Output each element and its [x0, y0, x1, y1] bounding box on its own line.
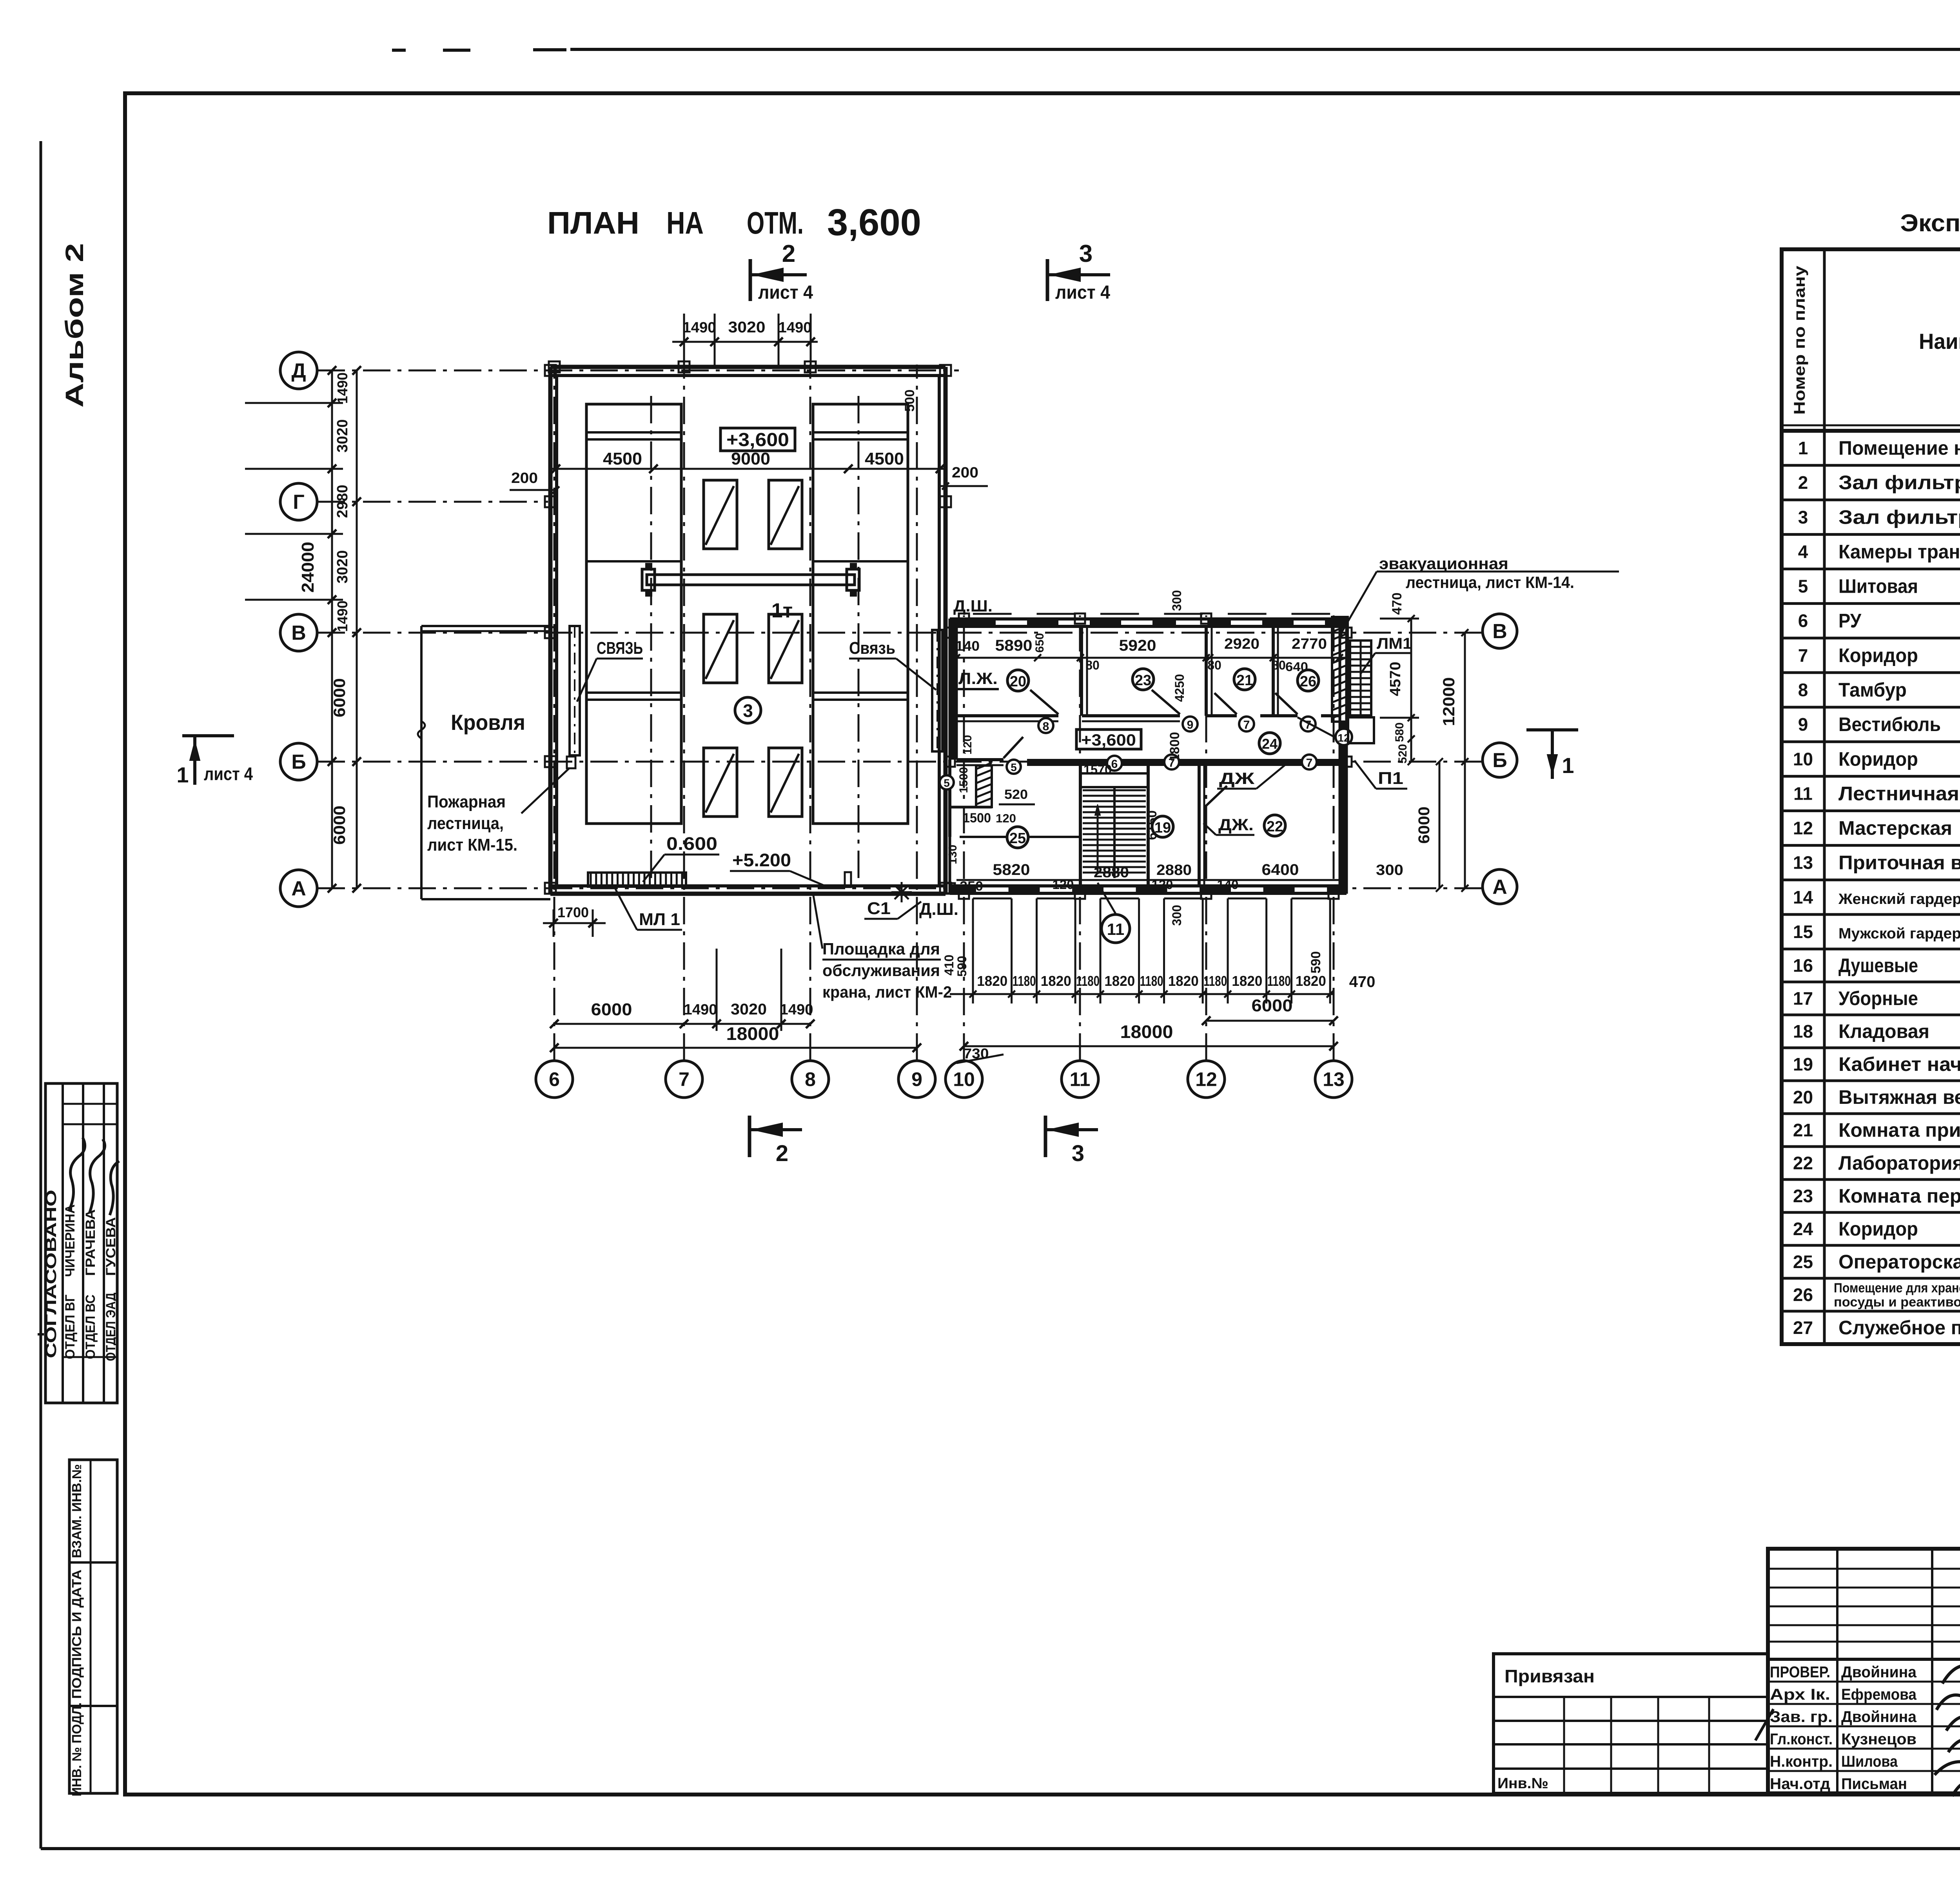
svg-text:23: 23: [1135, 672, 1151, 689]
axis circle А left: [280, 870, 317, 907]
left total chain tick: [352, 497, 361, 506]
svg-text:10: 10: [1793, 749, 1813, 769]
bottom chain tick: [777, 1020, 786, 1028]
svg-text:11: 11: [1793, 783, 1813, 804]
recess lines: [991, 766, 993, 807]
svg-text:12: 12: [1793, 818, 1813, 838]
svg-text:2920: 2920: [1224, 636, 1259, 652]
wall number circle 6: [1107, 756, 1122, 771]
svg-text:Зал фильтров на отм.0,000: Зал фильтров на отм.0,000: [1838, 472, 1960, 494]
svg-text:лист 4: лист 4: [204, 764, 253, 784]
axis circle 13 bottom: [1315, 1061, 1352, 1098]
section flag 3 bottom: [1044, 1116, 1047, 1157]
svg-text:крана, лист КМ-2: крана, лист КМ-2: [822, 983, 952, 1001]
left dimension chain line: [331, 370, 333, 888]
room number 3 circle: [735, 697, 761, 723]
brace symbol left wall: [570, 626, 580, 755]
svg-text:Коридор: Коридор: [1838, 644, 1918, 666]
svg-text:8: 8: [1043, 720, 1049, 733]
svg-text:РУ: РУ: [1838, 610, 1862, 632]
svg-text:12: 12: [1195, 1069, 1217, 1091]
svg-text:Мастерская: Мастерская: [1838, 817, 1952, 839]
svg-text:1820: 1820: [1296, 973, 1326, 989]
axis line А: [318, 887, 1482, 889]
svg-text:1180: 1180: [1076, 973, 1100, 989]
sheet outer border top: [570, 48, 1960, 51]
svg-text:13: 13: [1793, 853, 1813, 873]
room number circle 26: [1298, 670, 1319, 691]
svg-text:6000: 6000: [330, 678, 348, 717]
svg-text:Вестибюль: Вестибюль: [1838, 713, 1941, 735]
approval signature 1: [69, 1138, 85, 1211]
svg-text:2: 2: [1798, 472, 1808, 493]
fire ladder symbol on wall: [567, 757, 575, 768]
svg-text:1820: 1820: [1168, 973, 1199, 989]
svg-text:26: 26: [1300, 673, 1316, 690]
filter door 1-2: [769, 480, 802, 549]
svg-text:2: 2: [782, 240, 795, 267]
svg-text:Б: Б: [1492, 749, 1507, 772]
svg-text:Двойнина: Двойнина: [1841, 1708, 1917, 1726]
svg-text:5: 5: [1011, 761, 1017, 773]
svg-text:24: 24: [1262, 736, 1278, 752]
fire ladder callout: [521, 768, 569, 813]
annex chain tick: [1290, 898, 1292, 1003]
svg-text:500: 500: [902, 390, 917, 412]
wall number circle 7d: [1302, 755, 1317, 769]
svg-text:Привязан: Привязан: [1504, 1666, 1595, 1686]
signature squiggle 6: [1952, 1782, 1960, 1798]
door leaf corridor left: [1004, 737, 1023, 758]
explication row line 22: [1782, 1145, 1960, 1148]
stair landing line: [1080, 772, 1148, 775]
svg-text:6000: 6000: [1416, 807, 1433, 844]
explication row line 11: [1782, 775, 1960, 778]
axis circle 10 bottom: [946, 1061, 982, 1098]
left axis total line: [356, 370, 358, 888]
explication row line 4: [1782, 533, 1960, 536]
svg-text:22: 22: [1793, 1153, 1813, 1173]
partition room21-26: [1272, 626, 1275, 716]
svg-text:Служебное помещение.: Служебное помещение.: [1838, 1317, 1960, 1339]
svg-text:1: 1: [1798, 438, 1808, 458]
annex bottom wall poche: [950, 885, 1347, 894]
svg-text:3: 3: [1079, 240, 1093, 267]
svg-text:9: 9: [1187, 719, 1194, 731]
explication row line 2: [1782, 464, 1960, 467]
explication row line 9: [1782, 706, 1960, 709]
door leaf room22: [1204, 786, 1227, 807]
svg-text:Зав. гр.: Зав. гр.: [1770, 1708, 1833, 1726]
svg-text:12000: 12000: [1439, 677, 1458, 726]
section flag 3 top: [1046, 259, 1049, 301]
room 11 callout circle: [1102, 915, 1130, 943]
crane beam left plate: [642, 569, 655, 590]
tower width dim line: [550, 468, 946, 470]
left chain tick: [328, 530, 336, 538]
svg-text:4500: 4500: [603, 449, 642, 468]
svg-text:+3,600: +3,600: [1081, 731, 1136, 749]
explication row line 3: [1782, 499, 1960, 501]
svg-text:27: 27: [1793, 1317, 1813, 1338]
svg-text:1820: 1820: [977, 973, 1007, 989]
svg-text:Площадка для: Площадка для: [822, 940, 940, 958]
svg-text:эвакуационная: эвакуационная: [1379, 554, 1508, 573]
right dim chain 6000: [1439, 762, 1441, 888]
door leaf room23: [1152, 690, 1180, 714]
right dim chain 12000: [1464, 633, 1466, 888]
svg-text:Комната персонала: Комната персонала: [1838, 1185, 1960, 1207]
room number circle 25: [1007, 827, 1028, 848]
svg-text:6400: 6400: [1262, 861, 1299, 878]
svg-text:СВЯЗЬ: СВЯЗЬ: [597, 639, 643, 658]
svg-text:ДЖ.: ДЖ.: [1218, 815, 1254, 834]
svg-text:470: 470: [1349, 973, 1376, 991]
evacuation stair hatched wall: [1332, 617, 1348, 722]
elevation mark +3.600 box annex: [1076, 729, 1141, 749]
explication row line 12: [1782, 809, 1960, 812]
left chain tick: [328, 465, 336, 473]
dim 1700 line: [543, 922, 606, 924]
svg-text:120: 120: [961, 735, 974, 755]
svg-text:1180: 1180: [1267, 973, 1291, 989]
svg-text:6: 6: [1798, 611, 1808, 631]
tower band centerline right: [858, 396, 860, 886]
svg-text:4570: 4570: [1387, 662, 1404, 696]
section flag 2 top: [749, 259, 752, 301]
wall number circle 8: [1038, 718, 1053, 733]
explication table outer box: [1782, 249, 1960, 1344]
wall number circle 7c: [1164, 755, 1179, 769]
svg-text:ПОДПИСЬ И ДАТА: ПОДПИСЬ И ДАТА: [69, 1570, 84, 1699]
svg-text:590: 590: [955, 956, 969, 976]
svg-text:25: 25: [1793, 1252, 1813, 1272]
left total chain tick: [352, 628, 361, 637]
svg-text:Ефремова: Ефремова: [1841, 1686, 1917, 1703]
approval table row line: [63, 1356, 117, 1358]
svg-text:ЧИЧЕРИНА: ЧИЧЕРИНА: [63, 1205, 78, 1277]
axis circle В right: [1483, 614, 1517, 648]
stair arrow: [1097, 807, 1099, 874]
svg-text:Арх Iк.: Арх Iк.: [1770, 1686, 1830, 1703]
svg-text:24: 24: [1793, 1219, 1813, 1239]
tower top wall: [550, 365, 946, 369]
axis circle 9 bottom: [898, 1061, 935, 1098]
annex top wall poche: [950, 619, 1347, 627]
svg-text:1т: 1т: [771, 599, 793, 622]
svg-text:Душевые: Душевые: [1838, 954, 1918, 976]
roof break mark: [418, 721, 425, 739]
archive label column line: [90, 1460, 92, 1793]
svg-text:Приточная венткамера: Приточная венткамера: [1838, 852, 1960, 874]
filter door 2-1: [704, 614, 737, 683]
svg-text:А: А: [1492, 876, 1507, 898]
svg-text:1820: 1820: [1104, 973, 1135, 989]
svg-text:1800: 1800: [1167, 732, 1182, 762]
door figure bottom wall: [845, 872, 851, 887]
svg-text:6: 6: [1111, 758, 1118, 771]
explication row line 19: [1782, 1047, 1960, 1049]
left chain tick: [328, 628, 336, 637]
svg-text:ОТМ.: ОТМ.: [747, 205, 804, 240]
svg-text:15: 15: [1793, 922, 1813, 942]
svg-text:4: 4: [1798, 541, 1808, 562]
svg-text:2880: 2880: [1156, 862, 1192, 878]
svg-text:590: 590: [1308, 951, 1323, 974]
svg-text:Коридор: Коридор: [1838, 748, 1918, 770]
left chain extension lines: [245, 402, 343, 404]
svg-text:6000: 6000: [1252, 996, 1293, 1015]
annex chain tick: [1074, 898, 1076, 1003]
svg-text:140: 140: [955, 639, 980, 654]
axis line 6: [554, 365, 555, 1061]
svg-text:ДЖ: ДЖ: [1219, 769, 1255, 788]
svg-text:23: 23: [1793, 1186, 1813, 1206]
bottom total line tower 18000: [554, 1047, 917, 1049]
svg-text:Мужской гардероб ул, дом. и ра: Мужской гардероб ул, дом. и раб одежды: [1838, 925, 1960, 942]
svg-text:11: 11: [1070, 1069, 1091, 1091]
left total chain tick: [352, 366, 361, 375]
title block outer box: [1768, 1549, 1960, 1793]
svg-text:Шилова: Шилова: [1841, 1753, 1898, 1770]
approval table column lines: [62, 1083, 64, 1403]
svg-text:80: 80: [1207, 658, 1221, 672]
svg-text:200: 200: [511, 470, 538, 486]
signature squiggle 5: [1935, 1761, 1960, 1775]
left chain tick: [328, 399, 336, 407]
svg-text:20: 20: [1793, 1087, 1813, 1107]
corridor top wall: [956, 714, 1058, 717]
svg-text:4500: 4500: [865, 449, 904, 468]
extension lines bottom tower: [716, 949, 718, 1031]
svg-text:8: 8: [1798, 680, 1808, 700]
svg-text:Л.Ж.: Л.Ж.: [958, 669, 998, 688]
svg-text:МЛ 1: МЛ 1: [639, 910, 680, 929]
approval table box: [45, 1083, 117, 1403]
svg-text:С1: С1: [867, 899, 891, 918]
approval table top sub-rows: [63, 1103, 117, 1105]
door leaf room20: [1030, 690, 1058, 714]
ladder МЛ1 hatch strip: [588, 873, 686, 887]
explication row line 27: [1782, 1310, 1960, 1313]
section flag 2 bottom: [748, 1116, 751, 1157]
svg-text:18: 18: [1793, 1021, 1813, 1042]
svg-text:ОТДЕЛ ВС: ОТДЕЛ ВС: [83, 1295, 98, 1359]
svg-text:Альбом 2: Альбом 2: [60, 243, 89, 408]
axis line 9: [916, 365, 918, 1061]
svg-text:250: 250: [960, 879, 983, 894]
svg-text:3020: 3020: [728, 319, 766, 336]
svg-text:СОГЛАСОВАНО: СОГЛАСОВАНО: [43, 1190, 60, 1358]
stair left wall: [1079, 766, 1082, 886]
axis circle 8 bottom: [792, 1061, 829, 1098]
svg-text:ИНВ. № ПОДЛ.: ИНВ. № ПОДЛ.: [69, 1702, 84, 1796]
svg-text:14: 14: [1793, 887, 1813, 907]
svg-text:Д: Д: [291, 359, 306, 382]
axis line 10: [963, 615, 965, 1061]
svg-text:лист 4: лист 4: [758, 282, 813, 303]
stray slash: [1755, 1709, 1773, 1740]
svg-text:5820: 5820: [993, 861, 1030, 878]
svg-text:5890: 5890: [995, 637, 1033, 654]
svg-text:1180: 1180: [1203, 973, 1227, 989]
explication row line 8: [1782, 671, 1960, 674]
svg-text:ВЗАМ. ИНВ.№: ВЗАМ. ИНВ.№: [69, 1464, 84, 1558]
explication header bottom line: [1782, 429, 1960, 433]
explication row line 15: [1782, 913, 1960, 916]
svg-text:Г: Г: [293, 491, 304, 514]
svg-text:Наименование: Наименование: [1919, 329, 1960, 354]
svg-text:Нач.отд: Нач.отд: [1770, 1775, 1830, 1793]
svg-text:Д.Ш.: Д.Ш.: [919, 900, 958, 919]
svg-text:1570: 1570: [1083, 762, 1112, 777]
annex chain tick: [1227, 898, 1229, 1003]
annex right wall poche: [1339, 722, 1347, 894]
explication column line 1: [1823, 249, 1826, 1344]
svg-text:Кровля: Кровля: [451, 710, 525, 735]
svg-text:9000: 9000: [731, 449, 770, 468]
svg-text:300: 300: [1376, 862, 1403, 878]
explication row line 24: [1782, 1211, 1960, 1214]
sheet outer border bottom: [41, 1847, 1960, 1850]
svg-text:Шитовая: Шитовая: [1838, 575, 1918, 597]
explication row line 5: [1782, 568, 1960, 570]
svg-text:Номер по плану: Номер по плану: [1791, 265, 1808, 415]
left chain tick: [328, 366, 336, 375]
wall number circle 5: [1007, 760, 1021, 774]
filter gallery band right: [813, 404, 908, 824]
svg-text:300: 300: [1170, 905, 1184, 925]
annex bottom wall window lines: [973, 898, 1012, 900]
annex window dim chain line: [950, 993, 1334, 995]
svg-text:21: 21: [1793, 1120, 1813, 1140]
approval signature 3: [110, 1161, 119, 1215]
svg-text:25: 25: [1009, 830, 1026, 847]
svg-text:5920: 5920: [1119, 637, 1156, 654]
annex chain tick: [1036, 898, 1038, 1003]
svg-text:20: 20: [1010, 673, 1026, 690]
explication row line 17: [1782, 981, 1960, 983]
left chain tick: [328, 884, 336, 893]
right dim chain 4570: [1410, 619, 1412, 762]
svg-text:2880: 2880: [1094, 864, 1129, 881]
svg-text:3020: 3020: [731, 1001, 767, 1018]
annex chain tick: [1329, 898, 1331, 1003]
svg-text:120: 120: [996, 811, 1016, 825]
axis circle А right: [1483, 869, 1517, 904]
brace symbol right wall: [932, 630, 942, 751]
svg-text:1490: 1490: [684, 1002, 717, 1018]
room number circle 21: [1234, 669, 1255, 690]
partition 19-22: [1198, 766, 1201, 886]
axis circle Д left: [280, 352, 317, 389]
svg-text:Помещение для хранения: Помещение для хранения: [1834, 1281, 1960, 1296]
room number circle 24: [1259, 733, 1280, 754]
svg-text:7: 7: [1306, 757, 1313, 769]
svg-text:3: 3: [743, 700, 753, 721]
annex 6000 line: [1206, 1020, 1334, 1022]
explication row line 26: [1782, 1277, 1960, 1280]
left chain tick: [328, 595, 336, 604]
svg-text:650: 650: [1033, 633, 1046, 653]
svg-text:3020: 3020: [334, 550, 351, 584]
axis circle 7 bottom: [666, 1061, 702, 1098]
callout to 12: [1298, 717, 1334, 737]
annex top wall window lines: [973, 613, 1012, 615]
svg-text:200: 200: [952, 465, 978, 481]
svg-text:лист КМ-15.: лист КМ-15.: [427, 835, 517, 855]
axis circle Б right: [1483, 743, 1517, 777]
svg-text:2: 2: [776, 1141, 788, 1166]
attachment table columns: [1563, 1697, 1565, 1793]
explication row line 21: [1782, 1112, 1960, 1115]
axis circle В left: [280, 614, 317, 651]
annex chain tick: [1011, 898, 1013, 1003]
svg-text:Лестничная клетка: Лестничная клетка: [1838, 782, 1960, 804]
explication row line 10: [1782, 740, 1960, 743]
svg-text:Двойнина: Двойнина: [1841, 1664, 1917, 1681]
svg-text:470: 470: [1390, 593, 1405, 615]
svg-text:Уборные: Уборные: [1838, 987, 1918, 1009]
annex left wall poche: [950, 619, 957, 760]
svg-text:Д.Ш.: Д.Ш.: [953, 597, 993, 615]
svg-text:7: 7: [1798, 645, 1808, 666]
svg-text:Камеры трансформаторов: Камеры трансформаторов: [1838, 541, 1960, 563]
annex top row dim line: [950, 657, 1347, 659]
axis line Б: [318, 761, 1482, 763]
room number circle 22: [1264, 815, 1285, 836]
evacuation callout: [1377, 571, 1619, 573]
annex chain tick: [1265, 898, 1267, 1003]
axis line 13: [1333, 615, 1335, 1061]
title block upper grid rows: [1768, 1568, 1960, 1570]
door leaf room26: [1275, 693, 1298, 714]
signature squiggle 3: [1946, 1717, 1960, 1733]
room number circle 23: [1132, 669, 1154, 690]
section flag 1 right: [1526, 728, 1578, 731]
filter door 3-1: [704, 748, 737, 817]
stair treads: [1083, 789, 1146, 791]
svg-text:520: 520: [1004, 787, 1028, 802]
svg-text:Б: Б: [291, 751, 306, 773]
annex bottom interior dim line: [956, 879, 1339, 881]
axis circle Б left: [280, 743, 317, 780]
svg-text:120: 120: [1152, 878, 1173, 892]
annex total 18000 line: [964, 1045, 1334, 1047]
explication row line 16: [1782, 948, 1960, 951]
axis circle 6 bottom: [536, 1061, 573, 1098]
svg-text:520: 520: [1396, 744, 1409, 764]
svg-text:В: В: [291, 622, 306, 644]
svg-text:1490: 1490: [334, 601, 350, 632]
tower right wall: [944, 367, 948, 894]
wall number circle 7a: [1239, 717, 1254, 731]
svg-text:6000: 6000: [330, 806, 348, 845]
svg-text:410: 410: [942, 954, 956, 975]
platform callout: [813, 896, 822, 949]
wall number circle 9: [1183, 717, 1198, 731]
svg-text:Экспликация помещений: Экспликация помещений: [1900, 210, 1960, 237]
svg-text:1700: 1700: [557, 904, 589, 920]
svg-text:В: В: [1492, 620, 1507, 643]
evacuation ladder: [1350, 641, 1371, 715]
svg-text:4250: 4250: [1172, 674, 1187, 702]
svg-text:9: 9: [1798, 714, 1808, 735]
svg-text:ГРАЧЕВА: ГРАЧЕВА: [83, 1209, 98, 1276]
tower band centerline left: [650, 396, 652, 886]
svg-text:ПРОВЕР.: ПРОВЕР.: [1770, 1664, 1830, 1681]
svg-text:+3,600: +3,600: [726, 430, 789, 450]
